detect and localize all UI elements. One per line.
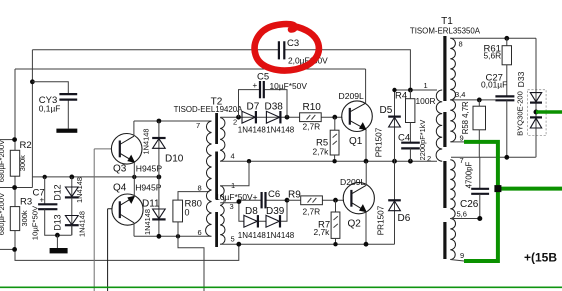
svg-text:5,6R: 5,6R: [484, 51, 502, 61]
svg-text:Q1: Q1: [349, 136, 363, 147]
svg-text:2: 2: [427, 154, 431, 163]
wire C7 bottom lead: [45, 209, 72, 235]
svg-text:D6: D6: [398, 213, 411, 224]
svg-text:R9: R9: [288, 189, 301, 200]
svg-text:BYQ30E-200: BYQ30E-200: [516, 91, 525, 136]
wire R9 to Q2 base: [287, 199, 344, 201]
diode D13: [53, 197, 87, 237]
wire to off-page bottom (from pin6 rail): [178, 236, 204, 291]
junction D33 common cathode: [534, 110, 539, 115]
wire Q1 emitter leg: [365, 129, 367, 161]
junction D11 bottom: [157, 234, 162, 239]
svg-text:R58 4,7R: R58 4,7R: [461, 101, 470, 134]
wire Q3 base (to off-page bottom): [94, 149, 111, 291]
svg-text:R4: R4: [395, 90, 407, 101]
svg-text:Q2: Q2: [348, 218, 362, 229]
svg-text:2: 2: [233, 117, 237, 126]
diode D8: [238, 206, 267, 240]
svg-text:D39: D39: [266, 206, 285, 217]
diode D10: [142, 121, 184, 177]
transformer T1 winding 7-5,6: [450, 160, 455, 219]
resistor R10: [300, 113, 322, 122]
wire pin1 lead riser: [220, 161, 249, 186]
wire R61 top lead: [506, 38, 508, 45]
wire Q3 collector leg: [133, 121, 135, 136]
wire top rail 1 (right half, C3 to R4 column): [285, 50, 411, 90]
svg-text:2,7k: 2,7k: [313, 146, 330, 156]
wire C26 top lead: [479, 157, 481, 189]
junction T2 pin1 riser: [247, 159, 251, 163]
capacitor C27: [495, 96, 514, 100]
transformer T2 core: [215, 113, 218, 247]
svg-text:5: 5: [231, 235, 235, 244]
svg-text:3,4: 3,4: [455, 90, 465, 99]
wire green bottom rail: [0, 286, 562, 288]
transformer T1 primary winding (pins 1-2): [436, 90, 442, 161]
junction D38/C5 right: [285, 115, 290, 120]
svg-text:2,7k: 2,7k: [314, 227, 331, 237]
svg-text:TISOM-ERL35350A: TISOM-ERL35350A: [410, 27, 481, 36]
junction R80 bottom: [176, 234, 180, 238]
diode D11: [142, 177, 166, 236]
junction A2: [12, 185, 17, 190]
svg-text:C6: C6: [268, 189, 280, 200]
ground (CY3): [56, 129, 77, 133]
svg-text:D5: D5: [380, 105, 393, 116]
wire R4 leads: [409, 90, 411, 143]
highlight red circle around C3: [255, 24, 319, 70]
transistor Q2: [343, 183, 374, 214]
wire green D33 output: [536, 110, 562, 113]
svg-text:+: +: [40, 196, 45, 205]
svg-text:680µF*200V: 680µF*200V: [0, 139, 6, 182]
junction C27 bottom: [504, 155, 509, 160]
transformer T1 core: [443, 36, 446, 259]
wire pin3 branch node line: [220, 200, 287, 221]
transistor Q3: [111, 134, 142, 165]
svg-text:1N4148: 1N4148: [238, 231, 267, 240]
wire C26 bottom lead: [479, 194, 481, 219]
diode D33 lower: [530, 117, 542, 128]
junction Q2 base node: [333, 198, 338, 203]
wire pin5,6 lead: [451, 218, 480, 220]
capacitor C7: [38, 204, 57, 209]
svg-text:D7: D7: [247, 101, 260, 112]
wire emitter-junction rail (node E): [32, 176, 158, 178]
svg-text:7: 7: [196, 121, 200, 130]
wire Q2 emitter leg: [365, 211, 367, 244]
svg-text:H945P: H945P: [135, 183, 162, 193]
svg-text:10µF*50V: 10µF*50V: [31, 205, 40, 240]
junction C7 tap: [43, 175, 47, 179]
svg-text:D33: D33: [516, 71, 526, 87]
rectifier D33 dashed box: [528, 90, 547, 136]
wire Q4 collector leg: [133, 223, 135, 237]
resistor R58: [473, 106, 486, 130]
svg-text:1: 1: [424, 81, 428, 90]
junction R5 bottom: [332, 159, 336, 163]
resistor R3: [10, 207, 19, 231]
svg-text:0,1µF: 0,1µF: [39, 103, 61, 113]
wire pin7 rail (Q3 collector to T2 pin 7): [134, 120, 212, 122]
svg-text:1N4148: 1N4148: [75, 177, 84, 203]
junction pin5/return: [236, 242, 241, 247]
wire C7 top lead: [44, 177, 46, 204]
resistor R61: [502, 46, 511, 65]
capacitor C4: [401, 143, 420, 149]
wire R5 top lead: [334, 117, 336, 130]
svg-text:+(15B: +(15B: [524, 251, 557, 265]
transistor Q1: [342, 101, 373, 132]
svg-text:D10: D10: [165, 153, 184, 164]
wire C5 left lead: [239, 90, 261, 118]
svg-text:T1: T1: [441, 16, 453, 27]
diode D39: [266, 206, 295, 240]
svg-text:C26: C26: [460, 199, 479, 210]
wire R7 top lead: [335, 200, 337, 212]
junction D5 top: [392, 88, 396, 92]
wire C5 right lead: [264, 90, 287, 118]
svg-text:C3: C3: [287, 38, 299, 49]
svg-text:C5: C5: [257, 72, 269, 83]
svg-text:10µF*50V+: 10µF*50V+: [215, 192, 257, 202]
ground (C7/D13): [50, 248, 68, 253]
junction R61 top: [504, 36, 509, 41]
capacitor CY3: [59, 94, 77, 100]
svg-text:1N4148: 1N4148: [266, 126, 295, 135]
resistor R9: [301, 196, 323, 205]
svg-text:0,01µF: 0,01µF: [481, 79, 507, 89]
svg-text:D8: D8: [245, 206, 258, 217]
svg-text:1N4148: 1N4148: [78, 211, 87, 237]
wire left column A (through R2,R3): [15, 69, 239, 260]
svg-text:C4: C4: [398, 133, 410, 144]
resistor R2: [10, 150, 19, 176]
transformer T1 winding 3,4-9: [450, 100, 455, 142]
svg-text:5,6: 5,6: [457, 209, 467, 218]
junction Q1 base node: [332, 115, 337, 120]
svg-text:10µF*50V: 10µF*50V: [270, 81, 308, 91]
svg-text:D12: D12: [53, 184, 63, 200]
svg-text:1N4148: 1N4148: [238, 126, 267, 135]
capacitor C26: [471, 189, 489, 194]
transformer T1 winding 5,6-9: [450, 219, 455, 260]
svg-text:6: 6: [198, 228, 202, 237]
junction Q3/Q4 emitter tap: [132, 175, 136, 179]
junction D5/D6 mid: [392, 159, 397, 164]
junction R7 bottom: [333, 242, 337, 246]
junction C4 bottom: [408, 159, 413, 164]
wire D33 top lead: [535, 38, 537, 157]
junction A3: [12, 247, 17, 252]
wire R5 bottom lead: [334, 155, 336, 161]
wire green +15V bus (pin9 top to pin9 bottom): [464, 142, 498, 261]
svg-text:2200pF*1kV: 2200pF*1kV: [418, 120, 427, 161]
wire Q2 collector leg: [365, 161, 367, 185]
wire T1 top rail (pin8 to D33): [450, 37, 536, 39]
wire R7 bottom lead: [335, 238, 337, 244]
junction D10 top: [157, 119, 162, 124]
wire C27 bottom lead: [506, 100, 508, 157]
wire R61 bottom lead: [506, 65, 508, 97]
svg-text:1N4148: 1N4148: [142, 129, 151, 155]
transistor Q4: [112, 194, 143, 225]
wire pin2 branch: [220, 116, 342, 118]
junction green bus tap: [494, 185, 501, 192]
capacitor C3: [279, 41, 284, 59]
junction pin2/C5 left: [236, 115, 241, 120]
svg-text:1N4148: 1N4148: [266, 231, 295, 240]
svg-text:1N4148: 1N4148: [143, 209, 152, 235]
wire mid rail (T2 pin4 to T1 pin2): [220, 160, 437, 162]
diode D38: [265, 101, 295, 134]
svg-text:R10: R10: [303, 102, 322, 113]
svg-text:2,7R: 2,7R: [303, 206, 321, 216]
wire top rail 2: [15, 68, 366, 70]
svg-text:4700pF: 4700pF: [465, 161, 474, 188]
svg-text:100R: 100R: [416, 96, 436, 106]
diode D12: [53, 177, 85, 203]
junction R4 top: [408, 88, 413, 93]
transformer T2 secondary upper (pins 2-4): [220, 118, 225, 162]
junction Q1 emitter: [364, 159, 369, 164]
junction D39/C6 right: [285, 198, 290, 203]
resistor R5: [330, 130, 339, 155]
svg-text:R2: R2: [20, 140, 32, 151]
resistor R80: [173, 200, 183, 222]
resistor R7: [331, 212, 340, 238]
svg-text:+: +: [253, 81, 258, 90]
wire CY3 branch: [32, 82, 68, 129]
wire Q3 emitter leg: [133, 162, 135, 177]
capacitor C6: [262, 192, 266, 208]
diode D5: [375, 90, 401, 161]
svg-text:H945P: H945P: [136, 163, 163, 173]
svg-text:680µF*200V: 680µF*200V: [0, 192, 6, 235]
svg-text:8: 8: [198, 183, 202, 192]
wire pin5 rail: [220, 243, 394, 245]
junction D10/D11 node: [157, 175, 162, 180]
svg-text:D38: D38: [265, 101, 284, 112]
wire stub to off-page left at node 3: [0, 248, 15, 250]
wire pin9 top lead: [451, 141, 464, 143]
wire pin6 rail: [134, 235, 211, 237]
wire pin8 lead: [178, 192, 210, 201]
transformer T1 winding 8-3,4: [450, 38, 455, 100]
svg-text:8: 8: [459, 40, 463, 49]
wire Q4 emitter leg: [133, 177, 135, 197]
wire R80 bottom lead: [177, 222, 179, 236]
svg-text:4: 4: [231, 152, 235, 161]
svg-text:PR1507: PR1507: [375, 127, 384, 157]
wire stub to off-page left at node 2: [0, 187, 32, 189]
wire Q4 base (to off-page bottom): [108, 209, 112, 291]
transformer T2 primary winding (pins 7-8-6): [206, 121, 212, 236]
svg-text:2,7R: 2,7R: [303, 122, 321, 132]
svg-text:D209L: D209L: [339, 91, 365, 101]
svg-text:Q4: Q4: [113, 183, 127, 194]
svg-text:300k: 300k: [20, 210, 29, 226]
wire top rail 1 (left half, to C3): [32, 49, 278, 51]
wire green output tap: [498, 187, 562, 191]
junction C7/D13 ground node: [55, 233, 60, 238]
wire pin9 bottom lead: [450, 260, 464, 262]
capacitor C5: [260, 81, 264, 98]
junction pin3/C6 left: [237, 199, 242, 204]
junction R58 top: [477, 98, 482, 103]
wire ground drop: [56, 235, 58, 248]
svg-text:300k: 300k: [18, 155, 27, 171]
svg-text:0: 0: [185, 208, 190, 218]
diode D7: [238, 101, 267, 134]
junction C26/pin5,6: [477, 216, 482, 221]
junction Q2 emitter: [364, 242, 369, 247]
wire left column B: [31, 50, 33, 188]
wire pin3,4 lead: [451, 99, 495, 101]
svg-text:D13: D13: [53, 214, 63, 230]
svg-text:D11: D11: [142, 198, 160, 209]
svg-text:PR1507: PR1507: [377, 205, 386, 235]
svg-text:TISOD-EEL19420A: TISOD-EEL19420A: [174, 105, 244, 114]
junction CY3 tap: [30, 79, 35, 84]
wire C4 bottom lead: [409, 148, 411, 161]
wire pin7 rail: [451, 156, 536, 158]
wire R58 leads: [478, 100, 480, 157]
junction D12 tap: [69, 175, 74, 180]
diode D6: [377, 161, 411, 244]
svg-text:Q3: Q3: [113, 164, 127, 175]
svg-text:D209L: D209L: [340, 177, 366, 187]
wire pin1/R4 top rail: [395, 89, 438, 91]
resistor R4: [406, 99, 415, 123]
svg-text:9: 9: [460, 251, 464, 260]
wire Q1 collector leg: [365, 69, 367, 103]
transformer T2 secondary lower (pins 1-3-5): [220, 186, 225, 244]
wire stub to off-page left at node 1: [0, 139, 15, 141]
diode D33 upper: [530, 93, 542, 103]
junction A1: [12, 137, 17, 142]
